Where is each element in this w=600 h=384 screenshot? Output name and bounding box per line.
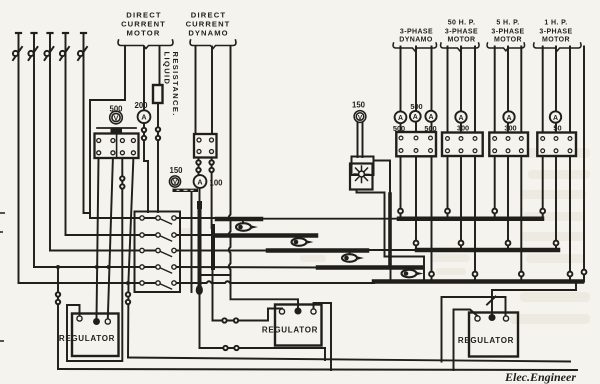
regulator3 terminal right [503, 316, 508, 321]
wire jog joining L5 and motor wire [84, 213, 159, 218]
fuse F9 on liquid resistance lead [156, 136, 160, 140]
dynamo box [194, 134, 217, 158]
fuse F21 [234, 346, 238, 350]
bus bar 3 [268, 248, 367, 253]
wire starter col2 to regulator1 right terminal [108, 158, 113, 319]
pins G3 [493, 137, 523, 153]
tick top L2 [32, 32, 37, 34]
wire row3 feeder [50, 250, 158, 252]
wire starter col1 to regulator1 middle terminal [97, 158, 99, 319]
fuse F15 on col3 [120, 184, 124, 188]
tick top L1 [16, 32, 21, 34]
wire G1 phase3 lower [431, 156, 433, 281]
junction circle [398, 209, 403, 214]
starter terminal [111, 151, 115, 155]
wire V3 drop left [357, 123, 359, 158]
fuse F16 [56, 292, 60, 296]
fuse F19 [126, 300, 130, 304]
ammeter A6 [455, 111, 466, 122]
regulator2 terminal right [311, 309, 316, 314]
svg-text:MOTOR: MOTOR [126, 29, 160, 38]
fuse F4 on L4 [60, 47, 69, 60]
wire G3 phase2 [507, 47, 509, 133]
svg-text:3-PHASE: 3-PHASE [400, 29, 433, 36]
terminal box G2 (50 HP motor) [442, 133, 483, 157]
svg-text:300: 300 [504, 124, 516, 133]
svg-text:MOTOR: MOTOR [542, 37, 570, 44]
motor starter brush block [111, 129, 123, 134]
AC bus C (phase 3) [374, 279, 582, 284]
bracket G2 [441, 43, 480, 51]
liquid resistance resistor [153, 85, 163, 103]
bracket G4 [534, 43, 582, 51]
wire G2 phase2 lower [460, 156, 462, 250]
fuse F6 below A1 [142, 128, 146, 132]
svg-text:V: V [358, 114, 363, 121]
tick top L3 [48, 32, 53, 34]
junction circle [473, 272, 478, 277]
dynamo terminal [210, 138, 214, 142]
wire regulator3 right terminal feed [442, 297, 506, 362]
ammeter A1 (200A motor) [138, 110, 151, 123]
wire regulator3 middle terminal riser to bus C [492, 282, 576, 315]
svg-text:A: A [398, 115, 403, 122]
wire G1 phase1 [400, 47, 402, 133]
svg-text:RESISTANCE.: RESISTANCE. [171, 52, 180, 117]
junction circle [445, 209, 450, 214]
junction dot row4/col1 [95, 265, 99, 269]
dynamo terminal [197, 138, 201, 142]
svg-text:500: 500 [393, 124, 405, 133]
wire continuation below blob to fused branch [199, 294, 201, 348]
wire G1 phase2 lower [415, 156, 417, 250]
fuse F10 [196, 160, 200, 164]
tick top L4 [63, 32, 68, 34]
wire L5 (supply line 5) [83, 33, 85, 213]
junction circle [492, 209, 497, 214]
junction circle [506, 241, 511, 246]
fuse F12 [209, 160, 213, 164]
regulator1 terminal left [77, 316, 82, 321]
wire motor lead 1 to voltmeter branch [90, 47, 125, 214]
wire dynamo lead 3 (long equalizer to regulator 2) [229, 47, 298, 309]
wire row4 tap down to rail 2 [57, 267, 59, 369]
ammeter A7 [503, 111, 514, 122]
starter terminal [120, 139, 124, 143]
dynamo terminal [210, 150, 214, 154]
wire G2 phase3 [474, 47, 476, 133]
terminal box G1 (3-phase dynamo) [396, 132, 436, 156]
field switch hub [359, 171, 365, 177]
ammeter A5 [425, 111, 436, 122]
svg-text:5 H. P.: 5 H. P. [496, 20, 519, 27]
wire row3 right of board [176, 250, 270, 252]
wire row1 right of board [176, 217, 217, 219]
regulator 3 box [469, 313, 518, 357]
svg-text:50 H. P.: 50 H. P. [448, 20, 476, 27]
heavy bus vertical from A2 [198, 209, 202, 289]
wire L2 (supply line 2) [33, 33, 35, 267]
wire fused branch to regulator 2 underside [200, 347, 326, 349]
junction dot row4/col2 [107, 265, 111, 269]
svg-text:200: 200 [134, 101, 148, 110]
wire G2 phase2 [460, 47, 462, 133]
wire regulator3 left terminal drop to rail2 [454, 310, 478, 371]
svg-text:MOTOR: MOTOR [494, 37, 522, 44]
pins G1 [399, 136, 432, 152]
svg-text:DIRECT: DIRECT [191, 11, 226, 20]
wire G1 phase3 [431, 47, 433, 133]
wire dynamo lead 1 [195, 47, 197, 135]
wire G4 phase2 lower [555, 156, 557, 250]
svg-text:300: 300 [457, 124, 469, 133]
wire shunt bar drop [191, 192, 193, 292]
terminal box G4 (1 HP motor) [537, 133, 576, 157]
svg-text:1 H. P.: 1 H. P. [544, 20, 567, 27]
bus bar 4 [318, 265, 421, 270]
wire rail 2 (lower DC distribution rail) [58, 369, 577, 370]
svg-text:3-PHASE: 3-PHASE [491, 29, 524, 36]
wire G3 phase1 lower [494, 156, 496, 219]
switch row 4 [140, 265, 176, 273]
svg-text:REGULATOR: REGULATOR [262, 326, 318, 335]
wire row4 right of board [176, 266, 320, 269]
wire ammeter A1 drop [144, 123, 148, 212]
svg-text:V: V [173, 179, 178, 186]
starter terminal [111, 139, 115, 143]
bus bar 1 [217, 217, 261, 222]
dynamo terminal [197, 150, 201, 154]
voltmeter V3 (150V AC) [354, 111, 366, 123]
regulator 2 box [275, 305, 322, 346]
svg-text:A: A [428, 114, 433, 121]
switch blade on riser [487, 297, 496, 305]
wire row2 right of board [176, 234, 218, 236]
svg-text:DIRECT: DIRECT [126, 11, 161, 20]
regulator 1 box [72, 314, 119, 357]
switch row 1 [140, 216, 176, 224]
shunt bar under V2/A2 [173, 189, 199, 192]
wire G3 phase3 [520, 47, 522, 133]
junction circle [414, 241, 419, 246]
wire bridge bus to equalizer [200, 274, 231, 276]
wire L3 (supply line 3) [49, 33, 51, 251]
svg-text:50: 50 [553, 124, 561, 133]
ammeter A3 [395, 111, 407, 123]
wire below liquid resistance [157, 103, 159, 212]
fuse F13 [209, 168, 213, 172]
junction dot row5 tap [126, 281, 130, 285]
wire G1 phase2 [415, 47, 417, 133]
wire thin link bar3 to AC bus B [366, 249, 418, 251]
fuse link FL1 on bar1 [236, 221, 258, 231]
field switch square upper [352, 157, 374, 176]
svg-text:500: 500 [410, 102, 422, 111]
fuse F1 on L1 [13, 47, 22, 60]
wire G2 phase1 lower [447, 156, 449, 219]
wire regulator2 left feed [213, 309, 283, 321]
wire ammeter A2 tail [199, 188, 201, 201]
svg-text:3-PHASE: 3-PHASE [539, 29, 572, 36]
fuse F17 [56, 300, 60, 304]
wire starter col3 looping around regulator 1 [67, 158, 122, 361]
regulator3 terminal middle [489, 315, 495, 321]
starter terminal [120, 151, 124, 155]
svg-text:A: A [197, 177, 202, 186]
wire L1 (supply line 1) [18, 33, 20, 283]
wire field switch bottom lead [357, 190, 385, 257]
wire V3 drop right [362, 123, 364, 158]
svg-text:150: 150 [169, 166, 183, 175]
wire row5 right of board [176, 281, 374, 283]
wire row5 feeder [19, 282, 159, 284]
wire motor lead 3 to liquid resistance [159, 47, 161, 86]
wire G2 phase3 lower [474, 156, 476, 282]
svg-text:LIQUID: LIQUID [163, 52, 172, 86]
wire G4 phase3 lower [569, 156, 571, 282]
fuse link FL4 on bar4 [402, 270, 424, 278]
wire G3 phase2 lower [507, 156, 509, 250]
tick top L5 [81, 32, 86, 34]
svg-text:DYNAMO: DYNAMO [399, 37, 433, 44]
fuse link FL2 on bar2 [292, 238, 314, 246]
ammeter A2 (100A) [194, 175, 207, 188]
wire dynamo lead 2 [211, 47, 213, 135]
svg-text:REGULATOR: REGULATOR [458, 336, 514, 345]
wire field switch to heavy drop [374, 161, 391, 197]
AC bus B (phase 2) [417, 248, 558, 253]
pins G4 [541, 137, 572, 153]
wire loop top [385, 256, 425, 258]
field switch square lower [350, 164, 373, 190]
svg-text:A: A [506, 115, 511, 122]
bracket G3 [487, 43, 525, 51]
fuse F8 on liquid resistance lead [156, 127, 160, 131]
wire branch drop to rail1 [324, 348, 326, 360]
svg-text:500: 500 [424, 124, 436, 133]
fuse F7 below A1 [142, 136, 146, 140]
fuse F3 on L3 [44, 47, 53, 60]
svg-text:150: 150 [352, 101, 366, 110]
junction circle [568, 272, 573, 277]
wire row2 feeder [66, 234, 159, 236]
bracket DC dynamo [190, 40, 236, 49]
junction circle [519, 272, 524, 277]
wire motor lead 2 to ammeter A1 [143, 47, 145, 111]
junction dot row4 tap [56, 265, 60, 269]
svg-text:MOTOR: MOTOR [448, 37, 476, 44]
svg-text:A: A [413, 114, 418, 121]
regulator1 terminal right [105, 319, 110, 324]
motor starter top wire [97, 127, 136, 129]
fuse F18 [126, 292, 130, 296]
svg-text:Elec.Engineer: Elec.Engineer [504, 370, 576, 384]
svg-text:V: V [114, 115, 119, 122]
switch row 3 [140, 248, 176, 256]
svg-text:3-PHASE: 3-PHASE [445, 29, 478, 36]
wire rail 1 (upper DC distribution rail) [128, 358, 570, 362]
connector block under A2 [197, 201, 202, 209]
wire G4 phase2 [555, 47, 557, 133]
switchboard panel [135, 212, 181, 293]
svg-text:A: A [458, 115, 463, 122]
fuse F14 on col3 [120, 176, 124, 180]
bus end blob [196, 285, 203, 295]
svg-text:100: 100 [209, 179, 223, 188]
junction circle [429, 272, 434, 277]
wire G4 phase1 lower [542, 156, 544, 219]
svg-text:REGULATOR: REGULATOR [59, 334, 115, 343]
starter terminal [131, 151, 135, 155]
wire G2 phase1 [447, 47, 449, 133]
bracket G1 [393, 43, 437, 51]
fuse F23 [234, 318, 238, 322]
fuse link FL3 on bar3 [342, 253, 364, 262]
wire row4 feeder [34, 266, 158, 268]
fuse F22 [222, 318, 226, 322]
heavy vertical bus segment [211, 226, 215, 268]
bus bar 2 [216, 233, 316, 238]
wire regulator2 right terminal loop to rail2 [314, 303, 332, 370]
bracket DC motor [118, 40, 173, 49]
regulator3 terminal left [475, 316, 480, 321]
wire G4 phase1 [542, 47, 544, 133]
field switch star [354, 166, 370, 183]
heavy drop to bar4 [388, 194, 392, 266]
starter terminal [97, 139, 101, 143]
pins G2 [446, 137, 477, 153]
wire G4 phase3 [569, 47, 571, 133]
svg-text:500: 500 [109, 105, 123, 114]
wire dynamo box left drop to ammeter A2 [198, 158, 200, 176]
motor starter box [95, 134, 139, 159]
svg-text:A: A [553, 115, 558, 122]
wire loop around fuse link FL4 [390, 257, 392, 282]
wire L4 (supply line 4) [65, 33, 67, 235]
starter terminal [131, 139, 135, 143]
wire G1 phase1 lower [400, 156, 402, 218]
regulator2 terminal middle [295, 308, 301, 314]
wire starter col4 down through row5 tap to rail 1 [128, 158, 133, 358]
starter terminal [97, 151, 101, 155]
voltmeter V1 (500V motor) [110, 111, 123, 124]
wire dynamo box right drop [211, 158, 213, 229]
voltmeter V2 (150V) [169, 176, 180, 187]
terminal box G3 (5 HP motor) [489, 133, 528, 157]
junction circle [540, 209, 545, 214]
regulator2 terminal left [279, 309, 284, 314]
wire G3 phase1 [494, 47, 496, 133]
junction circle [459, 241, 464, 246]
motor starter divider [116, 134, 118, 159]
wire thin continuation to regulator 2 left feed [212, 268, 214, 321]
regulator1 terminal middle [94, 319, 100, 325]
switch row 2 [140, 233, 176, 241]
wire G3 phase3 lower [520, 156, 522, 282]
svg-text:A: A [141, 113, 146, 122]
fuse F20 [223, 346, 227, 350]
junction circle [554, 241, 559, 246]
fuse F11 [196, 168, 200, 172]
wire loop right side [423, 257, 425, 282]
ammeter A8 [550, 111, 561, 122]
AC bus A (phase 1) [399, 216, 542, 221]
ammeter A4 [410, 111, 421, 122]
svg-text:DYNAMO: DYNAMO [188, 29, 228, 38]
fuse F2 on L2 [28, 47, 37, 60]
wire G4 extra line [583, 47, 585, 282]
switch row 5 [140, 281, 176, 289]
svg-text:CURRENT: CURRENT [121, 20, 166, 29]
svg-text:CURRENT: CURRENT [186, 20, 231, 29]
junction circle [582, 270, 587, 275]
fuse F5 on L5 [78, 47, 87, 60]
wire thin link bus bar1 to AC bus A [260, 218, 400, 220]
